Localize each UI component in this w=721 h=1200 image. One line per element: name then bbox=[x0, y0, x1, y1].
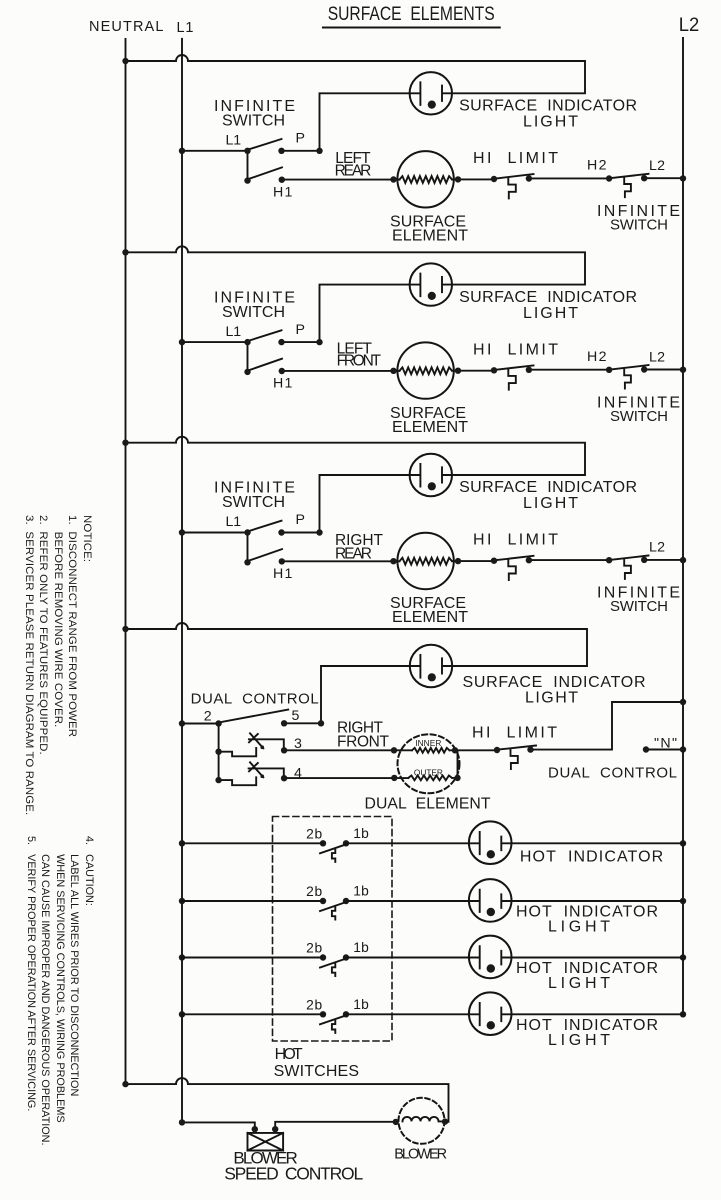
svg-text:REAR: REAR bbox=[335, 162, 372, 179]
svg-text:HI LIMIT: HI LIMIT bbox=[472, 725, 557, 742]
svg-text:LIGHT: LIGHT bbox=[548, 975, 610, 992]
svg-text:HOT INDICATOR: HOT INDICATOR bbox=[520, 849, 663, 866]
svg-text:2b: 2b bbox=[306, 826, 322, 841]
svg-text:L1: L1 bbox=[177, 20, 194, 36]
svg-text:L2: L2 bbox=[679, 15, 700, 36]
svg-text:3: 3 bbox=[294, 736, 302, 752]
svg-text:FRONT: FRONT bbox=[337, 734, 390, 751]
svg-text:DUAL CONTROL: DUAL CONTROL bbox=[191, 691, 319, 708]
svg-text:REAR: REAR bbox=[335, 545, 372, 562]
svg-text:SPEED CONTROL: SPEED CONTROL bbox=[224, 1164, 363, 1184]
svg-text:SURFACE INDICATOR: SURFACE INDICATOR bbox=[463, 674, 646, 691]
svg-text:1b: 1b bbox=[353, 940, 369, 955]
svg-text:HOT: HOT bbox=[275, 1046, 303, 1063]
svg-text:SWITCHES: SWITCHES bbox=[274, 1063, 359, 1080]
svg-text:BLOWER: BLOWER bbox=[394, 1146, 447, 1162]
svg-text:DUAL ELEMENT: DUAL ELEMENT bbox=[365, 796, 491, 813]
svg-text:FRONT: FRONT bbox=[337, 352, 382, 369]
svg-text:2b: 2b bbox=[306, 884, 322, 899]
svg-text:2b: 2b bbox=[306, 941, 322, 956]
svg-text:H2: H2 bbox=[587, 349, 607, 365]
svg-text:"N": "N" bbox=[654, 736, 677, 752]
svg-text:LIGHT: LIGHT bbox=[525, 690, 578, 707]
svg-text:1b: 1b bbox=[353, 997, 369, 1012]
svg-text:1b: 1b bbox=[353, 884, 369, 899]
svg-text:LIGHT: LIGHT bbox=[548, 1032, 610, 1049]
svg-text:LIGHT: LIGHT bbox=[548, 919, 610, 936]
svg-text:H2: H2 bbox=[587, 158, 607, 174]
svg-text:SURFACE ELEMENTS: SURFACE ELEMENTS bbox=[328, 3, 495, 25]
svg-text:NEUTRAL: NEUTRAL bbox=[89, 19, 163, 35]
svg-text:2b: 2b bbox=[306, 997, 322, 1012]
svg-text:INNER: INNER bbox=[415, 738, 441, 748]
svg-text:1b: 1b bbox=[353, 826, 369, 841]
svg-text:DUAL CONTROL: DUAL CONTROL bbox=[548, 765, 677, 782]
svg-text:OUTER: OUTER bbox=[414, 768, 443, 778]
svg-text:2: 2 bbox=[204, 708, 212, 724]
svg-text:4: 4 bbox=[294, 766, 302, 782]
svg-text:5: 5 bbox=[292, 708, 300, 724]
